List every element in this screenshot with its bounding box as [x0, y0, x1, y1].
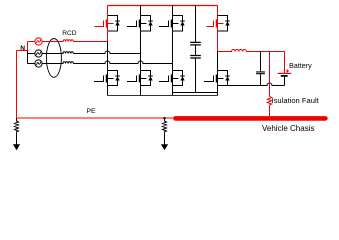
wire phase B with inductor L2, hop over leg1 [42, 51, 140, 54]
wire leg4 source stub [217, 86, 219, 96]
wire battery negative lead [284, 77, 286, 86]
wire leg4 midpoint black lower [217, 52, 219, 71]
RCD current transformer ellipse [46, 39, 61, 78]
transistor Q4 leg4 top [207, 16, 230, 32]
svg-text:N: N [20, 45, 25, 52]
capacitor C1 dc-link upper [190, 42, 201, 55]
wire phase C with inductor L3, hops over leg1 leg2 [42, 61, 172, 64]
wire leg3 source stub [172, 86, 174, 96]
wire DC+ top rail (red) [108, 5, 218, 7]
wire PE drop vertical [16, 51, 18, 119]
wire leg2 midpoint [140, 31, 142, 70]
wire leg1 drain drop [107, 6, 109, 16]
wire neutral bus red upper segment [27, 42, 29, 51]
svg-text:RCD: RCD [62, 30, 77, 37]
ground chassis earth resistor and arrow [161, 117, 168, 150]
transistor Q7 leg3 bottom [159, 71, 185, 86]
transistor Q1 leg1 top [95, 16, 120, 32]
wire leg2 drain drop [140, 6, 142, 16]
transistor Q6 leg2 bottom [127, 71, 153, 86]
wire isolation fault lower (red) [269, 105, 271, 116]
transistor Q3 leg3 top [159, 16, 185, 32]
svg-text:PE: PE [87, 108, 97, 115]
wire N to PE horizontal [17, 50, 28, 52]
battery BT1 negative plate [281, 75, 288, 77]
battery BT1 plus sign [286, 70, 289, 73]
wire bottom rail upper segment [173, 92, 218, 94]
transistor Q5 leg1 bottom [94, 71, 120, 86]
wire isolation fault upper (red) [269, 52, 271, 97]
ac source V1 phase A [28, 38, 43, 45]
wire battery positive drop (red) [284, 52, 286, 73]
wire leg3 midpoint [172, 31, 174, 70]
vehicle chassis bar (thick red) [176, 116, 326, 121]
wire PE line (light red) [17, 117, 175, 119]
ground left earth resistor and arrow [13, 118, 20, 150]
wire dc-link column upper [195, 6, 197, 43]
wire bottom rail lower [108, 95, 218, 97]
ac source V2 phase B [28, 50, 43, 57]
wire phase A with inductor L1 (red) [42, 40, 107, 42]
transistor Q2 leg2 top [127, 16, 153, 32]
wire leg1 source stub [107, 86, 109, 96]
wire output rail with inductor L5 (red) [218, 50, 285, 52]
wire battery return rail with hop over fault line [218, 83, 285, 86]
resistor R fault (red zigzag) [267, 97, 271, 105]
capacitor C2 dc-link lower [190, 56, 201, 93]
wire leg4 drain drop [217, 6, 219, 16]
wire leg4 midpoint red upper [217, 31, 219, 52]
svg-text:Battery: Battery [289, 61, 312, 70]
battery BT1 positive plate (red) [278, 72, 292, 74]
svg-text:Isulation Fault: Isulation Fault [272, 96, 320, 105]
svg-text:Vehicle Chasis: Vehicle Chasis [262, 124, 314, 133]
wire leg3 drain drop [172, 6, 174, 16]
transistor Q8 leg4 bottom [204, 71, 230, 86]
capacitor C3 output filter [256, 52, 265, 86]
ac source V3 phase C [28, 60, 43, 67]
wire leg1 midpoint red upper [107, 31, 109, 42]
wire leg1 midpoint black lower [107, 42, 109, 71]
wire neutral bus black lower segment [27, 51, 29, 64]
wire leg2 source stub [140, 86, 142, 96]
